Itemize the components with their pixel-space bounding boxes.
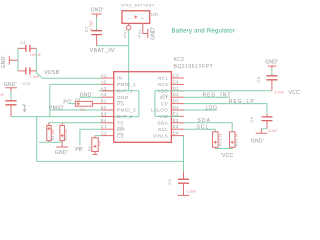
svg-text:SCL: SCL (158, 127, 168, 133)
resistor R5 10k (60, 123, 68, 142)
pin A3 BAT_1 (101, 86, 133, 95)
pin A1 IN (101, 73, 123, 82)
svg-text:IN: IN (117, 76, 123, 82)
svg-text:4.7uF: 4.7uF (274, 90, 285, 95)
svg-text:LSLDO: LSLDO (151, 108, 168, 114)
ground GND (battery, rotated) (148, 27, 157, 40)
pin C4 NC2 (158, 79, 184, 88)
svg-text:A2: A2 (101, 79, 107, 84)
svg-text:B1: B1 (101, 99, 107, 104)
svg-text:Battery and Regulator: Battery and Regulator (172, 29, 236, 35)
svg-text:C8: C8 (256, 76, 261, 82)
svg-text:100nF: 100nF (30, 52, 42, 57)
svg-text:10k: 10k (64, 129, 68, 135)
wire VINLS down (183, 136, 185, 173)
wire MR (pin C1 to PB) (80, 129, 102, 145)
pin E1 VIO (159, 111, 184, 120)
wire CE (pin C2 down) (95, 136, 102, 137)
svg-text:E3: E3 (173, 124, 179, 129)
svg-text:PMID_1: PMID_1 (117, 82, 136, 88)
svg-text:GND': GND' (55, 150, 68, 156)
ground GND (C6) (251, 129, 267, 145)
svg-text:NC: NC (80, 107, 86, 112)
pin C1 MR (101, 124, 126, 133)
pin E3 SCL (158, 124, 184, 133)
resistor R3 1.5k (SCL pullup) (213, 131, 223, 149)
svg-text:D3: D3 (173, 99, 179, 104)
svg-text:PB': PB' (75, 147, 83, 153)
wire (pullup bottoms) (215, 148, 232, 150)
wire REG_LP (184, 104, 267, 115)
resistor R4 10k (47, 123, 55, 142)
wire (PMID vertical) (49, 84, 51, 116)
svg-text:1: 1 (128, 17, 132, 19)
svg-text:C1: C1 (167, 178, 172, 184)
svg-text:SDA: SDA (157, 121, 168, 127)
resistor R2 10k (88, 136, 102, 154)
wire VUSB diagonal (36, 73, 42, 79)
connector U$1 2PAD_BATTERY (121, 4, 160, 24)
svg-text:BAT_1: BAT_1 (117, 89, 133, 95)
ground GND (above C25) (4, 82, 31, 92)
capacitor C8 4.7uF (256, 75, 284, 95)
svg-text:C4: C4 (173, 79, 179, 84)
pin D3 CP (161, 99, 184, 108)
pin C3 NC1 (158, 73, 184, 82)
ground GND (rotated, left of C4/C5) (1, 55, 18, 68)
svg-text:BQ21061YFPT: BQ21061YFPT (174, 64, 214, 70)
svg-text:BAT_2: BAT_2 (117, 114, 133, 120)
svg-text:E1: E1 (173, 111, 179, 116)
svg-text:REG_LP: REG_LP (229, 99, 255, 105)
svg-text:PG': PG' (63, 99, 72, 105)
wire (battery PS1 down to BAT net) (128, 30, 130, 91)
wire (BAT vertical inside IC) (138, 91, 140, 117)
pin B4 TS (101, 118, 124, 127)
svg-text:PMID_2: PMID_2 (117, 108, 136, 114)
svg-text:SCL: SCL (197, 125, 210, 131)
IC KC2 BQ21061YFPT body (114, 72, 172, 143)
ground (bottom cap) (178, 194, 190, 196)
svg-text:KC2: KC2 (174, 57, 185, 63)
svg-text:10k: 10k (51, 129, 55, 135)
svg-text:GND': GND' (251, 139, 264, 145)
pin B3 BAT_2 (101, 111, 133, 120)
svg-text:C4': C4' (20, 40, 27, 45)
svg-text:GND': GND' (1, 55, 7, 68)
wire (bottom horizontal to VINLS) (37, 160, 184, 162)
svg-text:LDO: LDO (206, 105, 218, 111)
pin A2 PMID_1 (101, 79, 137, 88)
pin E4 VINLS (153, 131, 184, 140)
resistor R9 NC (75, 98, 101, 112)
svg-text:2: 2 (141, 17, 145, 19)
svg-text:NC1: NC1 (158, 76, 169, 82)
pin A4 GND (101, 92, 129, 101)
svg-text:VUSB': VUSB' (44, 70, 60, 76)
svg-text:C6: C6 (249, 116, 254, 122)
svg-text:4.7uF: 4.7uF (88, 20, 93, 31)
svg-text:NC2: NC2 (158, 82, 169, 88)
svg-text:REG_INT: REG_INT (203, 93, 232, 99)
svg-text:INT: INT (160, 95, 169, 101)
svg-text:R3: R3 (218, 141, 222, 146)
wire SCL (184, 129, 215, 131)
svg-text:PG: PG (117, 101, 125, 107)
svg-text:E2: E2 (173, 118, 179, 123)
svg-text:VINLS: VINLS (153, 133, 168, 139)
wire BAT (C25 to IC) (11, 116, 139, 118)
wire PMID_1 (row A2) (50, 83, 102, 85)
svg-text:GND': GND' (265, 60, 278, 66)
wire (resistor tops to pin B4) (48, 122, 102, 124)
wire VUSB to pin A1 (42, 77, 101, 79)
resistor R6 1.5k (SDA pullup) (230, 131, 239, 149)
svg-text:uF: uF (0, 92, 5, 97)
wire (resistor bottoms) (39, 141, 62, 143)
svg-text:PS2: PS2 (137, 29, 142, 38)
wire (VDD to VIO vertical) (154, 91, 156, 117)
svg-text:D2: D2 (173, 92, 179, 97)
testpoint glyph (23, 105, 26, 112)
wire (GND to C7 top) (96, 17, 98, 29)
pin C2 CE (101, 131, 125, 140)
svg-text:U$1: U$1 (151, 11, 160, 16)
capacitor C5 1.0uF (18, 67, 40, 79)
pin D4 LSLDO (151, 105, 184, 114)
svg-text:VBAT_IN': VBAT_IN' (90, 48, 116, 54)
svg-text:1.0uF: 1.0uF (187, 189, 197, 193)
wire (C4/C5 right plates) (35, 48, 37, 72)
svg-text:GND': GND' (91, 8, 104, 14)
pin E2 SDA (157, 118, 183, 127)
wire PG to R9 (69, 103, 75, 105)
svg-text:CP: CP (161, 101, 168, 107)
svg-text:C1: C1 (101, 124, 107, 129)
svg-text:C2: C2 (101, 131, 107, 136)
svg-text:VIO: VIO (159, 114, 168, 120)
wire (V2 down from BAT) (36, 117, 38, 162)
capacitor C7 (84, 20, 102, 46)
svg-text:A4: A4 (101, 92, 107, 97)
svg-text:TS: TS (117, 121, 124, 127)
capacitor C25 (0, 92, 17, 117)
pin B1 PG (101, 99, 125, 108)
wire VIO (155, 115, 180, 117)
svg-text:GND': GND' (4, 82, 17, 88)
wire SDA (184, 123, 232, 131)
svg-text:D1: D1 (173, 86, 179, 91)
wire (GND to C25) (10, 91, 12, 99)
wire VDD to VCC (through symbol) (155, 90, 272, 92)
svg-text:C25': C25' (22, 82, 31, 86)
svg-text:R6: R6 (235, 141, 239, 146)
wire LDO (184, 109, 217, 111)
svg-text:B2: B2 (101, 105, 107, 110)
wire REG_INT (184, 96, 230, 98)
svg-text:VDD: VDD (157, 89, 168, 95)
svg-text:PS1: PS1 (123, 29, 128, 38)
wire (C6 bottom to GND) (261, 128, 267, 130)
capacitor C4 100nF (18, 40, 42, 57)
capacitor C1 (bottom) (167, 172, 197, 195)
svg-text:'VCC: 'VCC (221, 153, 234, 159)
svg-text:PMID': PMID' (49, 105, 65, 111)
svg-text:2.2uF: 2.2uF (268, 129, 278, 133)
ground GND (below resistors) (55, 142, 68, 156)
pin PS1 (123, 23, 131, 37)
svg-text:C3: C3 (173, 73, 179, 78)
ground GND (above C8) (265, 60, 278, 69)
svg-text:10k: 10k (98, 141, 102, 147)
pin D1 VDD (157, 86, 184, 95)
svg-text:R2: R2 (88, 146, 92, 151)
svg-text:CE: CE (117, 133, 124, 139)
svg-text:D4: D4 (173, 105, 179, 110)
svg-text:B4: B4 (101, 118, 107, 123)
svg-text:A3: A3 (101, 86, 107, 91)
svg-text:GND': GND' (151, 27, 157, 40)
wire PMID_2 (row B2) (50, 109, 102, 111)
wire GND to pin A4 (79, 96, 101, 98)
svg-text:1.5k: 1.5k (218, 133, 222, 140)
svg-text:A1: A1 (101, 73, 107, 78)
pin PS2 (137, 23, 148, 37)
wire BAT_1 (row A3) (99, 90, 139, 92)
svg-text:SDA: SDA (198, 118, 212, 124)
svg-text:2PAD_BATTERY': 2PAD_BATTERY' (121, 4, 156, 8)
svg-text:MR: MR (117, 127, 125, 133)
svg-text:1.5k: 1.5k (235, 133, 239, 140)
svg-text:E4: E4 (173, 131, 179, 136)
wire (C4/C5 left plates) (17, 48, 19, 71)
wire VBAT_IN (C7 to battery drop) (97, 45, 129, 47)
capacitor C6 2.2uF (249, 114, 278, 133)
wire (GND to C8) (271, 68, 273, 75)
svg-text:GND: GND (117, 95, 129, 101)
svg-text:B3: B3 (101, 111, 107, 116)
ground GND (above C7) (91, 8, 104, 18)
pin B2 PMID_2 (101, 105, 137, 114)
svg-text:VCC': VCC' (289, 90, 302, 96)
pin D2 INT (160, 92, 184, 101)
